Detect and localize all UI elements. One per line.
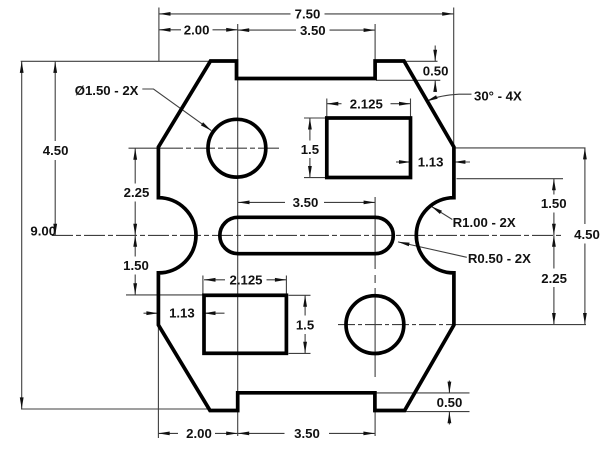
dimension 9.00 overall height [20,61,56,409]
dimension 1.13 top [396,155,470,170]
part outline with chamfers, notches and side cutouts [158,61,454,411]
svg-text:1.50: 1.50 [541,196,567,211]
extension line above top rect left [326,99,328,118]
svg-text:Ø1.50 - 2X: Ø1.50 - 2X [75,83,139,98]
upper circle horizontal centerline [129,147,283,149]
dimension 3.50 slot [238,195,375,210]
leader R1.00 side cutouts [431,206,516,230]
extension line above bottom rect left [202,276,204,296]
dimension 4.50 left [43,61,69,235]
extension line lower corner level to right dims [460,324,586,326]
extension line top rect bottom to right dim [457,178,564,180]
svg-text:4.50: 4.50 [574,227,600,242]
dimension 2.00 bottom [158,426,238,441]
extension line above top rect right [410,99,412,118]
svg-text:1.13: 1.13 [169,305,195,320]
svg-text:2.00: 2.00 [186,426,212,441]
dimension 2.125 top rect [327,97,411,112]
dimension 3.50 bottom notch [238,426,375,441]
lower rectangular cutout 2.125 x 1.5 [204,295,286,353]
main horizontal centerline [52,234,563,236]
centerline-extension x=237.7 (top dims through circle, slot, lower rect to bottom dims) [237,24,239,436]
extension line bottom rect top to left dim [126,294,204,296]
dimension 3.50 top notch [238,23,375,38]
svg-text:3.50: 3.50 [293,195,319,210]
dimension 1.5 bottom rect height [296,295,314,353]
lower circle horizontal centerline [338,324,460,326]
svg-text:0.50: 0.50 [423,64,449,79]
svg-text:9.00: 9.00 [30,224,56,239]
svg-text:1.5: 1.5 [301,142,319,157]
svg-text:3.50: 3.50 [294,426,320,441]
dimension 7.50 overall width [159,7,454,22]
extension lines for top rect height [304,118,326,178]
extension line x=375.1 bottom notch to bottom dim [374,411,376,436]
upper hole circle &#216;1.50 [208,119,266,177]
extension line right edge to top dims [453,8,455,147]
extension line top edge level right of corner [406,60,438,62]
svg-text:0.50: 0.50 [437,395,463,410]
dimension 0.50 top notch depth [423,46,449,93]
dimension 1.50 right [541,179,567,236]
svg-text:1.50: 1.50 [123,258,149,273]
dimension 1.50 left [123,235,149,294]
svg-text:2.125: 2.125 [350,97,383,112]
svg-text:3.50: 3.50 [300,23,326,38]
central slot 3.50 with R0.50 ends [220,217,393,253]
svg-text:1.5: 1.5 [296,317,314,332]
leader Ø1.50 - 2X holes [75,83,212,131]
extension line top notch bottom extended right [376,79,440,81]
svg-text:2.25: 2.25 [124,185,150,200]
dimension 1.13 bottom [144,305,225,320]
svg-text:4.50: 4.50 [43,143,69,158]
extension line bottom edge extended right [406,411,470,413]
leader 30 degree chamfer note [426,89,522,104]
svg-text:2.125: 2.125 [229,273,262,288]
dimension 1.5 top rect height [301,118,319,178]
dimension 2.125 bottom rect [204,273,286,288]
extension line below bottom-left corner [157,326,159,438]
dimension 2.25 right [541,235,567,324]
svg-text:30° - 4X: 30° - 4X [474,89,522,104]
extension lines for bottom rect height [289,295,311,353]
svg-text:R1.00 - 2X: R1.00 - 2X [453,215,516,230]
centerline x=375.1 slot to lower circle [374,197,376,377]
upper rectangular cutout 2.125 x 1.5 [327,118,411,178]
dimension 0.50 bottom notch depth [437,381,463,425]
extension line x=375.1 top dims to notch corner [374,24,376,78]
extension line top edge level left [21,60,211,62]
svg-text:7.50: 7.50 [295,7,321,22]
svg-text:1.13: 1.13 [418,155,444,170]
dimension 2.25 left [124,148,150,235]
dimension 2.00 top [159,22,238,37]
svg-text:2.00: 2.00 [184,22,210,37]
leader R0.50 slot ends [398,242,531,266]
svg-text:2.25: 2.25 [541,271,567,286]
extension line bottom notch bottom extended right [376,392,470,394]
extension line left edge to top dims [158,8,160,62]
lower hole circle &#216;1.50 [346,296,404,354]
dimension 4.50 right [574,148,600,325]
extension line above bottom rect right [285,276,287,296]
svg-text:R0.50 - 2X: R0.50 - 2X [468,251,531,266]
extension line bottom edge level left [21,408,208,410]
extension line right top corner level [454,147,586,149]
